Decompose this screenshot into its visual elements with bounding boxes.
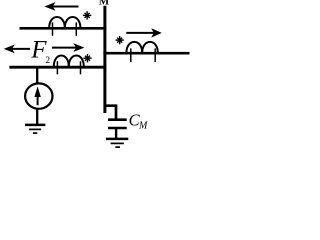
ground (below capacitor) (106, 139, 128, 147)
wire: W2 junction down to current source (36, 67, 38, 84)
flux arrow over L1 (pointing left) (44, 2, 78, 11)
polarity mark (asterisk) of L2 (83, 54, 91, 62)
wire W1 (top feeder to bus) (20, 27, 107, 30)
current source arrow (pointing up) (34, 86, 40, 105)
wire: current source to ground (36, 109, 38, 124)
current source J1 (circle) (25, 83, 52, 108)
wire: branch from bus to capacitor (105, 106, 116, 119)
F2 left arrow (pointing left) (4, 45, 30, 54)
bus M (vertical busbar) (103, 6, 106, 113)
polarity mark (asterisk) of L1 (83, 11, 91, 19)
capacitor CM (bottom plate) (108, 127, 127, 130)
svg-text:M: M (138, 120, 148, 131)
capacitor CM (top plate) (108, 118, 127, 121)
F2 right arrow (pointing right) (52, 43, 84, 52)
wire W3 (right feeder from bus) (103, 52, 189, 55)
wire W2 (lower-left feeder to bus) (9, 66, 106, 69)
inductor L2 (winding on wire W2) (54, 55, 84, 74)
inductor L1 (winding on wire W1) (49, 17, 80, 36)
polarity mark (asterisk) of L3 (116, 36, 124, 44)
wire: capacitor to ground (115, 129, 117, 139)
flux arrow over L3 (pointing right) (126, 28, 162, 37)
svg-text:2: 2 (45, 56, 50, 66)
ground (below current source) (25, 125, 45, 133)
inductor L3 (winding on wire W3) (126, 42, 157, 62)
